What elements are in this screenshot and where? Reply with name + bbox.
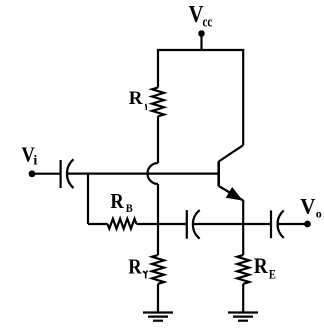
ground under RE [228,313,258,321]
svg-text:i: i [33,154,37,169]
capacitor C1 left plate [59,160,61,188]
wire R1 bottom to hop [157,116,159,163]
capacitor C1 curved plate [67,159,74,188]
wire collector vertical [242,49,244,145]
wire R1 top [157,49,159,88]
wire Vcc stem [200,33,202,50]
resistor R1 [152,88,164,117]
wire R2 top [157,224,159,255]
transistor Q1 emitter arrow [227,188,242,200]
svg-text:R: R [128,255,142,279]
svg-text:V: V [300,194,315,219]
wire hop over base line [148,163,159,184]
capacitor C2 left plate [186,210,188,239]
capacitor C3 left plate [270,210,272,238]
wire RE top [242,224,244,255]
resistor RE [237,255,249,284]
wire C2 to C3 through emitter node [193,223,270,225]
terminal dot Vi [29,170,36,177]
svg-text:R: R [129,88,143,109]
wire RE to ground [242,284,244,313]
svg-text:R: R [254,253,269,278]
svg-text:B: B [126,201,133,215]
capacitor C2 curved plate [193,210,200,239]
svg-text:R: R [110,189,124,213]
svg-text:o: o [316,207,322,221]
resistor RB [108,219,137,229]
wire base line [67,173,219,175]
wire R2 to ground [157,284,159,313]
transistor Q1 base bar [217,161,220,186]
wire hop to lower node [157,184,159,224]
wire RB to capacitor C2 [136,223,186,225]
wire Vi to capacitor [33,173,60,175]
wire input node down [87,174,89,224]
wire emitter down [242,200,244,224]
resistor R2 [152,255,164,284]
transistor Q1 emitter diagonal [219,186,244,201]
ground under R2 [143,313,173,321]
svg-text:cc: cc [203,14,213,30]
terminal dot Vo [304,221,311,228]
wire collector diagonal [219,145,244,161]
svg-text:E: E [269,267,276,281]
capacitor C3 curved plate [278,210,284,238]
terminal dot Vcc [198,30,205,37]
wire lower left to RB [88,223,108,225]
wire top rail Vcc [157,49,243,51]
wire C3 to Vo terminal [278,223,305,225]
